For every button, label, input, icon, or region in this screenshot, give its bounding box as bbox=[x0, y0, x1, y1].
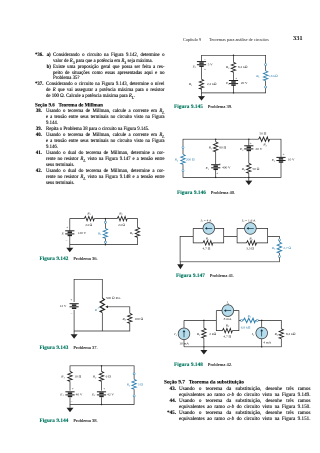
current source I1 = 4A fig 9.147 bbox=[203, 223, 215, 235]
resistor R1 4.7ohm fig 9.147 bbox=[203, 241, 213, 245]
battery E1 400V fig 9.146 bbox=[211, 165, 220, 170]
wire: rails fig 9.148 bbox=[184, 320, 281, 346]
battery E1 40V fig 9.144 bbox=[65, 392, 74, 397]
resistor RL 5.6k (blue) fig 9.145 bbox=[263, 71, 267, 81]
wire: interconnect + RL + bottom return fig 9.147 bbox=[180, 236, 279, 261]
current source I2 4mA fig 9.148 bbox=[256, 327, 268, 339]
resistor RL 6.8kohm (blue, horizontal) fig 9.148 bbox=[243, 318, 255, 322]
resistor RL 100ohm fig 9.143 bbox=[128, 313, 132, 323]
node fig 9.145 bbox=[233, 55, 235, 57]
svg-text:2 kΩ: 2 kΩ bbox=[209, 332, 216, 336]
resistor R2 6ohm fig 9.144 bbox=[99, 371, 103, 381]
ground arrow fig 9.147 bbox=[177, 264, 183, 269]
page header bbox=[183, 37, 201, 42]
svg-text:4,7 Ω: 4,7 Ω bbox=[223, 335, 231, 340]
battery 12V fig 9.143 bbox=[70, 304, 79, 309]
ground fig 9.146 bbox=[245, 177, 252, 185]
svg-text:6,8 kΩ: 6,8 kΩ bbox=[241, 325, 251, 330]
wire: middle branch fig 9.142 bbox=[104, 219, 106, 245]
resistor RL (blue, middle) fig 9.142 bbox=[103, 228, 107, 238]
label arrow for R fig 9.143 bbox=[98, 306, 101, 309]
svg-text:R3: R3 bbox=[225, 323, 230, 328]
resistor RL 200ohm (blue) fig 9.146 bbox=[181, 154, 185, 164]
wiper arrow fig 9.143 bbox=[107, 306, 109, 308]
node fig 9.144 bbox=[101, 365, 103, 367]
wire: outer loop fig 9.142 bbox=[70, 219, 138, 245]
resistor R1 2.2k fig 9.145 bbox=[199, 79, 203, 89]
node fig 9.148 bbox=[203, 320, 205, 322]
svg-text:R1: R1 bbox=[196, 332, 200, 337]
resistor R1 10ohm fig 9.144 bbox=[68, 371, 72, 381]
svg-text:RL: RL bbox=[247, 314, 252, 319]
ground fig 9.144 bbox=[67, 405, 74, 413]
wire: loop fig 9.146 bbox=[183, 139, 281, 177]
wire: loop fig 9.144 bbox=[70, 366, 134, 405]
svg-text:I2: I2 bbox=[251, 332, 255, 337]
ground fig 9.145 bbox=[198, 93, 205, 101]
node A fig 9.142 bbox=[105, 218, 107, 220]
current source I3 8mA fig 9.148 bbox=[222, 305, 234, 317]
wire: middle block fig 9.148 bbox=[216, 311, 239, 331]
shared symbol defs bbox=[0, 0, 1, 1]
battery E2 42V fig 9.144 bbox=[97, 392, 106, 397]
ground fig 9.148 bbox=[200, 347, 207, 355]
svg-text:10 mA: 10 mA bbox=[179, 341, 189, 345]
LEFT COLUMN TEXT bbox=[35, 53, 165, 187]
svg-text:R2: R2 bbox=[274, 332, 279, 337]
RIGHT COLUMN BOTTOM TEXT bbox=[164, 380, 311, 422]
resistor R1 2kohm fig 9.148 bbox=[202, 328, 206, 338]
ground fig 9.143 bbox=[71, 331, 78, 339]
potentiometer R 500ohm fig 9.143 bbox=[100, 298, 104, 313]
battery E1 5V fig 9.145 bbox=[197, 62, 206, 67]
resistor R3 fig 9.142 bbox=[135, 227, 139, 237]
svg-text:I1: I1 bbox=[173, 332, 176, 337]
FIGURE CAPTIONS bbox=[40, 256, 98, 262]
resistor R2 8.2kohm fig 9.148 bbox=[279, 329, 283, 339]
ground fig 9.142 bbox=[66, 245, 73, 253]
resistor R3 50ohm (top) fig 9.146 bbox=[259, 137, 270, 141]
wire: block1 loop fig 9.147 bbox=[193, 228, 224, 243]
node fig 9.146 bbox=[215, 138, 217, 140]
svg-text:8,2 kΩ: 8,2 kΩ bbox=[286, 332, 296, 337]
current source I2 = 1.6A fig 9.147 bbox=[245, 223, 257, 235]
resistor R2 3.3ohm fig 9.147 bbox=[247, 241, 257, 245]
resistor R2 24ohm fig 9.142 bbox=[117, 216, 127, 220]
battery E2 20V fig 9.146 bbox=[244, 146, 253, 151]
svg-text:4 mA: 4 mA bbox=[263, 340, 271, 344]
current source I1 10mA fig 9.148 bbox=[178, 328, 190, 340]
resistor R2 50ohm fig 9.146 bbox=[247, 163, 251, 173]
battery E2 20V fig 9.145 bbox=[229, 81, 238, 86]
wire: loop fig 9.143 bbox=[74, 279, 130, 331]
wire: loop fig 9.145 bbox=[202, 55, 266, 93]
resistor R1 24ohm fig 9.142 bbox=[84, 216, 94, 220]
resistor R1 80ohm fig 9.146 bbox=[214, 142, 218, 152]
svg-text:8 mA: 8 mA bbox=[224, 317, 232, 321]
resistor R3 4.7ohm fig 9.148 bbox=[222, 328, 232, 332]
resistor RL 3ohm (blue) fig 9.144 bbox=[132, 379, 136, 389]
resistor R2 8.2k fig 9.145 bbox=[231, 62, 235, 72]
wire: block2 loop fig 9.147 bbox=[237, 228, 268, 243]
resistor RL 2.7ohm (blue) fig 9.147 bbox=[277, 242, 281, 253]
battery E3 10V fig 9.146 bbox=[276, 157, 285, 162]
battery E 120V fig 9.142 bbox=[65, 231, 74, 236]
